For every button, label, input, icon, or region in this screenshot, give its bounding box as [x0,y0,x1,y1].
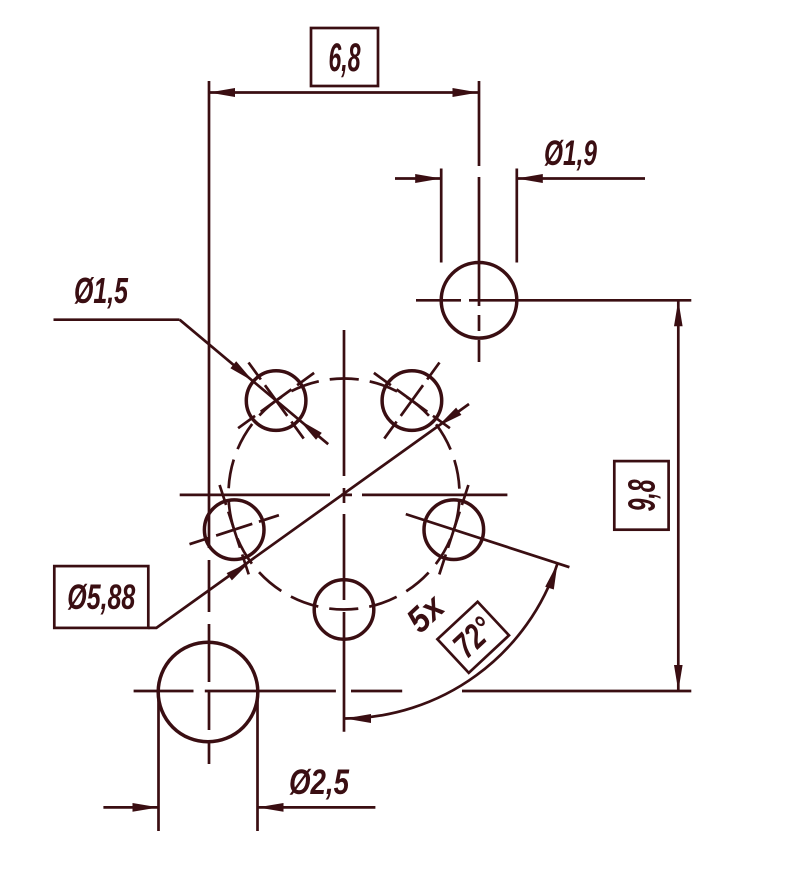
dimension Ø5,88 upper arrow [438,408,462,427]
dimension 6,8 right arrow [453,88,479,97]
leader Ø1,5 upper arrow [230,361,253,381]
dimension 6,8 line [209,91,479,94]
angle arc top arrow [545,563,557,589]
dimension 9,8 top arrow [674,300,683,326]
dimension 9,8 label box [614,461,668,530]
hole 5 Ø1,5 at 342° [424,500,484,560]
bolt circle horizontal centerline (y=494.9) [180,494,508,497]
angle arc bottom arrow [345,714,371,723]
dimension Ø2,5 line left tail [103,806,158,809]
hole 4 Ø1,5 at 270° [314,580,374,640]
svg-text:6,8: 6,8 [329,36,361,80]
dimension Ø2,5 right arrow [258,803,284,812]
hole Ø1,9 (top circle) [441,263,517,339]
centerline horizontal of Ø2,5 hole / bottom extension of dim 9,8 (y=691) [134,690,692,693]
centerline vertical of Ø1,9 hole / extension line of dim 6,8 (x=479) [478,81,481,362]
hole 5 tangential center dash [439,485,468,574]
dimension Ø1,9 right arrow [517,174,543,183]
dimension Ø5,88 lower arrow [227,562,251,581]
centerline horizontal of Ø1,9 hole / top extension of dim 9,8 (y=300.3) [416,299,691,302]
leader Ø1,5 lower arrow [299,420,322,440]
hole 2 center cross [238,363,314,439]
dimension 9,8 line [677,300,680,691]
svg-text:Ø1,9: Ø1,9 [544,134,597,173]
dimension Ø2,5 left arrow [133,803,159,812]
svg-text:Ø2,5: Ø2,5 [289,763,349,802]
leader Ø1,5 diagonal line [180,320,329,445]
dimension 9,8 bottom arrow [674,665,683,691]
angle 72° label box (rotated) [437,602,509,673]
dimension Ø5,88 label box [54,566,148,628]
centerline vertical of Ø2,5 hole / extension line of dim 6,8 (x=209) [208,81,211,764]
dimension Ø1,9 left extension line [440,169,443,263]
dimension 6,8 label box [311,28,378,86]
angle dimension radial extension line at -18° [406,514,570,567]
bolt circle vertical centerline (x=344) [343,330,346,732]
dimension Ø1,9 right tail [517,177,645,180]
hole 3 center cross [190,485,279,574]
svg-text:Ø1,5: Ø1,5 [74,270,129,311]
hole 3 Ø1,5 at 198° [204,500,264,560]
dimension Ø2,5 left extension line [157,697,160,831]
hole 1 Ø1,5 at 54° [382,371,442,431]
svg-text:9,8: 9,8 [622,479,664,512]
dimension Ø5,88 leader line [148,404,469,628]
svg-text:Ø5,88: Ø5,88 [67,578,135,617]
leader Ø1,5 horizontal line [54,318,180,321]
dimension Ø2,5 right extension line [256,697,259,831]
dimension Ø2,5 line right tail [258,806,376,809]
dimension 6,8 left arrow [209,88,235,97]
bolt circle Ø5,88 (dashed) [229,379,460,610]
dimension Ø1,9 left tail [395,177,441,180]
dimension Ø1,9 left arrow [415,174,441,183]
dimension Ø1,9 right extension line [515,169,518,263]
hole 2 Ø1,5 at 126° [246,371,306,431]
hole Ø2,5 (large circle, bottom left) [158,642,258,742]
angle dimension arc 72° [345,563,558,718]
hole 1 center cross [374,363,450,439]
